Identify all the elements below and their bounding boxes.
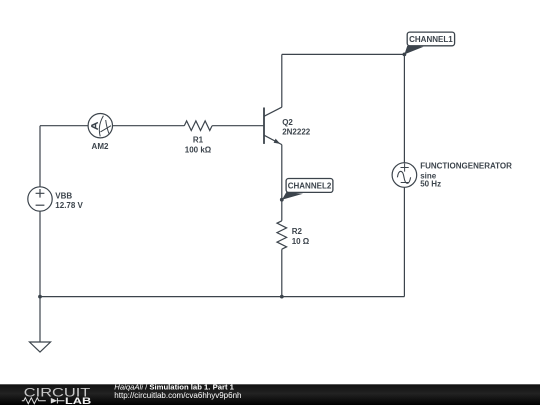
CircuitLab logo resistor-diode glyph (22, 398, 65, 404)
svg-text:2N2222: 2N2222 (282, 127, 311, 136)
node CHANNEL2 tap (280, 198, 284, 202)
node CHANNEL1 tap (403, 53, 407, 57)
CHANNEL1 callout tail (404, 46, 423, 55)
svg-text:10 Ω: 10 Ω (292, 237, 310, 246)
ammeter AM2 (88, 114, 112, 138)
svg-text:FUNCTIONGENERATOR: FUNCTIONGENERATOR (420, 162, 512, 171)
wire emitter vertical to R2 and down to bottom rail (281, 145, 283, 297)
transistor Q2 emitter arrow (274, 139, 281, 144)
svg-text:CHANNEL2: CHANNEL2 (288, 181, 332, 190)
svg-text:50 Hz: 50 Hz (420, 180, 441, 189)
svg-text:AM2: AM2 (92, 142, 109, 151)
svg-text:12.78 V: 12.78 V (55, 201, 83, 210)
svg-text:LAB: LAB (65, 396, 91, 405)
svg-text:R1: R1 (193, 136, 204, 145)
node junction bottom-left (38, 295, 42, 299)
function generator (392, 163, 417, 188)
svg-text:VBB: VBB (55, 192, 72, 201)
svg-text:HaiqaAli / Simulation lab 1. P: HaiqaAli / Simulation lab 1. Part 1 (114, 382, 234, 391)
svg-text:http://circuitlab.com/cva6hhyv: http://circuitlab.com/cva6hhyv9p6nh (114, 391, 241, 400)
wire left vertical (node top-left down to bottom rail, through VBB) (39, 126, 41, 297)
wire top rail (collector to right vertical) (282, 53, 405, 55)
transistor Q2 collector stroke (264, 107, 282, 116)
wire collector vertical (281, 54, 283, 107)
transistor Q2 base bar (263, 108, 265, 144)
voltage source VBB (28, 187, 52, 211)
CHANNEL2 callout box (286, 179, 333, 193)
wire ground stem (39, 297, 41, 342)
node junction R2 bottom (280, 295, 284, 299)
wire top-left horizontal (VBB top to R1 left, through AM2) (40, 125, 263, 127)
wire right vertical (through function generator) (403, 54, 405, 296)
CHANNEL1 callout box (407, 32, 454, 46)
resistor R1 (184, 121, 212, 131)
svg-text:R2: R2 (292, 227, 303, 236)
CHANNEL2 callout tail (282, 192, 303, 200)
resistor R2 (277, 221, 287, 249)
svg-text:Q2: Q2 (282, 118, 293, 127)
wire bottom rail (40, 296, 404, 298)
transistor Q2 emitter stroke (264, 135, 282, 144)
ground (30, 342, 51, 352)
svg-text:CHANNEL1: CHANNEL1 (409, 35, 453, 44)
svg-text:100 kΩ: 100 kΩ (185, 146, 212, 155)
